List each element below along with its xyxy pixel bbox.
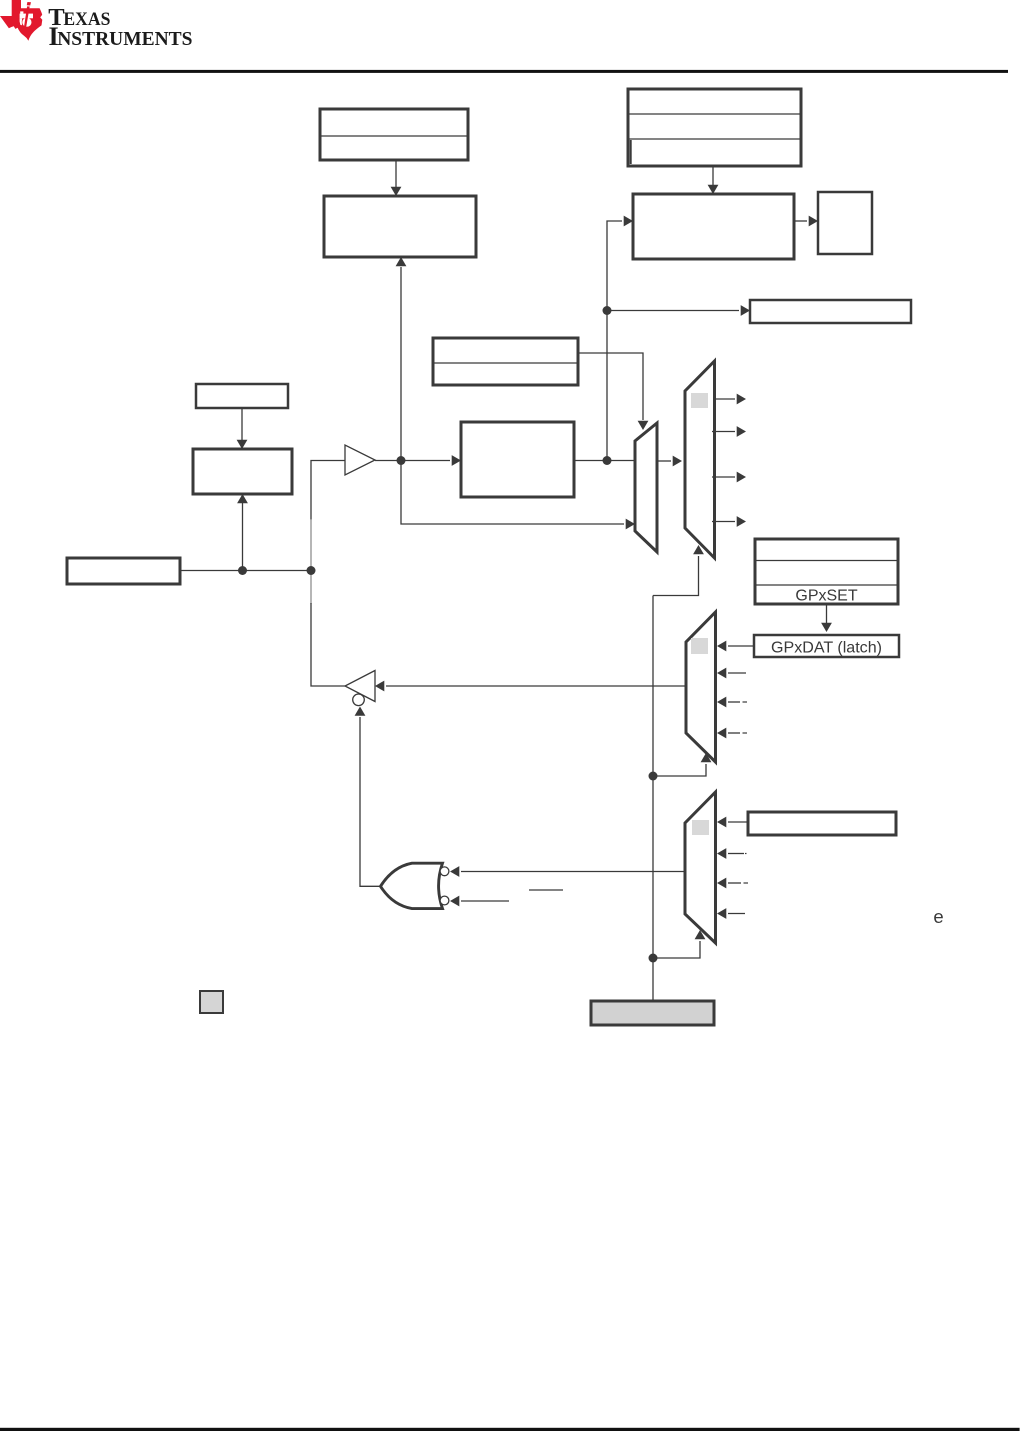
wire U1 out to box H with arrow [375,455,461,466]
block box I (right) [748,812,896,835]
wire into D from left (elbow from node N5) [607,216,633,461]
register box G (2-row, center) [433,338,578,385]
wire mux M4 out to XNOR input 1 [450,866,685,877]
svg-text:GPxDAT (latch): GPxDAT (latch) [771,640,882,657]
node N1 junction dot [238,566,247,575]
mux M2 select tag (gray square) [691,393,708,408]
node N2 junction dot [307,566,316,575]
wire GPxDAT to mux M3 input 1 [717,641,754,652]
register box K1 (small, left) [196,384,288,408]
wire XNOR input 2 stub [450,896,509,907]
TI logo wordmark [48,4,192,51]
mux M4 select tag (gray square) [692,820,709,835]
mux M2 [685,361,715,558]
wire M2 select from main vertical [653,545,704,596]
wire D to E with arrow [794,216,818,227]
wire M4 input stub 3 [717,878,748,889]
mux M4 [685,792,716,943]
wire M4 input stub 2 [717,848,747,859]
mux M3 [686,612,716,762]
pin box (gray, bottom) [591,1001,714,1025]
wire node N2 down to input buffer output [310,571,312,605]
footer rule [0,1428,1020,1431]
node N5 junction dot [603,456,612,465]
node N7 junction dot [649,954,658,963]
block box B [324,196,476,257]
wire M2 output 4 [712,516,746,527]
wire node N3 down to mux M1 lower input [401,461,635,530]
mux M1 [635,423,657,552]
wire M3 select from node N6 [653,753,711,776]
wire M3 input stub 3 [717,697,747,708]
register box GPxDAT (latch) [754,635,899,657]
wire A to B with arrow [391,160,402,196]
output buffer U1 [345,445,375,475]
wire M2 output 3 [712,472,746,483]
TI logo bug [0,0,42,41]
svg-text:EXAS: EXAS [63,9,110,30]
wire M1 out to mux M2 with arrow [657,456,682,467]
svg-text:NSTRUMENTS: NSTRUMENTS [57,29,192,50]
wire M2 output 1 [715,394,747,405]
svg-text:GPxSET: GPxSET [795,588,857,605]
register box A (2-row, top left) [320,109,468,160]
block box E [818,192,872,254]
block box H [461,422,574,497]
wire I to mux M4 input 1 [717,817,748,828]
register box J (left) [67,558,180,584]
input buffer U2 [345,671,375,702]
XNOR gate G1 [381,863,443,908]
XNOR input bubble 2 [440,896,449,905]
XNOR input bubble 1 [440,867,449,876]
wire GPxSET to GPxDAT with arrow [821,604,832,632]
register box F (thin, right) [750,300,911,323]
enable bubble on U2 [353,694,365,706]
wire M2 output 2 [712,426,746,437]
wire M4 input stub 4 [717,908,745,919]
wire node N3 up to box B with arrow [396,257,407,461]
svg-text:e: e [933,906,943,927]
register box GPxSET (3-row) [755,539,898,605]
block box D [633,194,794,259]
main vertical wire [652,596,654,1002]
wire M4 select from node N7 [653,930,705,958]
header rule [0,70,1008,73]
node N6 junction dot [649,772,658,781]
wire K1 to K2 with arrow [237,408,248,449]
wire M3 input stub 2 [717,668,746,679]
mux M3 select tag (gray square) [691,638,708,654]
register box C (3-row, top right) [628,89,801,166]
wire H to mux M1 [574,460,635,462]
XNOR gate output wire to bubble [355,707,381,887]
wire from J to nodes N1 N2 [180,570,311,572]
wire C to D with arrow [708,166,719,194]
node N4 junction dot [603,306,612,315]
legend gray square [200,991,223,1013]
wire node N1 up to K2 with arrow [237,494,248,571]
wire M3 out to input buffer with arrow [375,681,686,692]
wire to F with arrow [607,305,750,316]
wire node N2 up to output buffer input [311,461,345,521]
wire M3 input stub 4 [717,728,747,739]
wire G to mux M1 select [578,353,648,430]
block box K2 [193,449,292,494]
dash mark near XNOR [529,889,563,891]
node N3 junction dot [397,456,406,465]
